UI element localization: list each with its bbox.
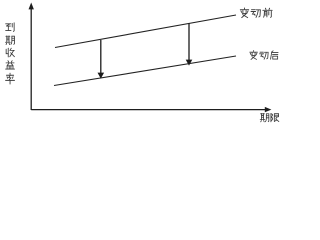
x-axis label 期限: [260, 113, 279, 121]
lower yield curve (after): [54, 56, 236, 86]
x-axis: [31, 107, 271, 112]
label 变动前: [240, 8, 272, 18]
down arrow 2: [186, 24, 193, 66]
y-axis: [29, 3, 34, 111]
upper yield curve (before): [55, 15, 236, 48]
label 变动后: [250, 51, 278, 60]
down arrow 1: [98, 40, 105, 79]
y-axis label 到期收益率 (vertical): [5, 23, 14, 84]
